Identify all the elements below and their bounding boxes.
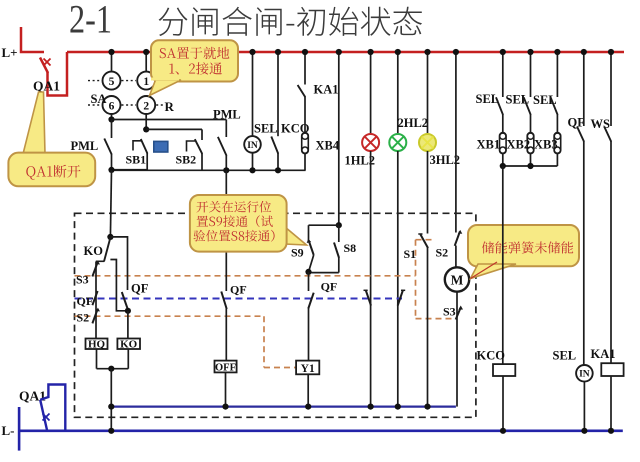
coil KCO (477, 166, 516, 431)
title text (69, 0, 112, 42)
pushbutton SB1 (126, 139, 148, 170)
wire left branch (95, 262, 97, 339)
svg-text:IN: IN (247, 141, 258, 151)
svg-text:PML: PML (71, 139, 99, 153)
wire S9S8 column (338, 52, 340, 225)
svg-text:R: R (165, 99, 175, 114)
contact S2 motor (436, 230, 463, 260)
breaker QA1 bottom (19, 385, 65, 431)
svg-text:Y1: Y1 (301, 363, 315, 375)
callout run-position (190, 195, 307, 252)
svg-text:QF: QF (321, 280, 338, 294)
contact S3 motor (443, 292, 463, 407)
linkage S2 dashed orange (75, 316, 296, 367)
callout QA1-open (8, 92, 95, 186)
svg-text:S2: S2 (436, 246, 449, 260)
node S9S8 top (336, 222, 342, 228)
selector SA contact 6 (103, 96, 121, 120)
lamp SEL IN top (244, 52, 277, 170)
contact QF left (77, 291, 98, 308)
svg-text:S8: S8 (344, 241, 357, 255)
svg-text:XB2: XB2 (507, 138, 531, 152)
contact QF lamp2 (398, 290, 406, 306)
wire control rail (108, 167, 305, 174)
relay contact KA1 (298, 52, 339, 133)
contact S2 left (77, 308, 101, 325)
switch PML1 (71, 120, 112, 171)
svg-text:2-1: 2-1 (69, 0, 112, 42)
terminal XB3 (534, 133, 561, 166)
linkage S3 dashed orange (75, 240, 454, 319)
contact S1 (404, 234, 429, 407)
node L- label (2, 423, 15, 438)
svg-text:SEL: SEL (254, 122, 278, 136)
svg-text:OFF: OFF (215, 362, 236, 373)
selector SA dashed links (88, 81, 163, 105)
svg-text:S2: S2 (77, 311, 90, 325)
svg-text:XB3: XB3 (534, 138, 558, 152)
selector SA contact 5 (103, 52, 121, 90)
wire SB1 bottom link (112, 169, 148, 171)
svg-text:KO: KO (120, 339, 138, 351)
svg-text:SB2: SB2 (176, 153, 197, 167)
pushbutton SB2 (176, 129, 203, 170)
contact S3 left (76, 261, 100, 287)
label SA (91, 92, 107, 106)
svg-text:KA1: KA1 (314, 83, 339, 97)
callout SA-local (150, 40, 239, 95)
svg-text:2: 2 (143, 101, 149, 113)
switch WS (591, 52, 612, 363)
wire S9S8 bottom link (305, 269, 338, 275)
coil KA1 (591, 347, 624, 431)
svg-text:QA1: QA1 (33, 79, 60, 94)
switch SEL1 (476, 52, 504, 133)
linkage QF dashed blue (75, 298, 403, 300)
wire horizontal to SB2 (146, 128, 202, 130)
terminal XB4 (302, 133, 340, 171)
svg-text:HQ: HQ (88, 339, 106, 351)
wire QF branch (110, 237, 127, 290)
svg-text:5: 5 (109, 76, 115, 88)
svg-text:SEL: SEL (553, 349, 577, 363)
callout spring-not-charged (468, 225, 579, 279)
svg-text:L-: L- (2, 423, 15, 438)
svg-text:S9: S9 (291, 246, 304, 260)
contact QF off-column (221, 283, 246, 310)
wire motor column (455, 52, 457, 233)
node branch split (107, 234, 113, 240)
svg-text:XB1: XB1 (477, 138, 501, 152)
svg-text:KO: KO (84, 244, 104, 258)
wire inner negative rail (108, 404, 456, 410)
node junction under SA-6 (108, 116, 114, 122)
selector SA contact 2 (137, 96, 155, 129)
lamp 3HL2 (419, 52, 460, 234)
svg-text:S1: S1 (404, 247, 417, 261)
motor M (445, 246, 469, 292)
svg-text:KA1: KA1 (591, 347, 616, 361)
wire HQ-KO join (97, 366, 129, 431)
contact QF y1-column (308, 272, 337, 309)
svg-text:L+: L+ (2, 45, 18, 60)
selector SA contact 1 (137, 52, 155, 90)
switch SEL2 (506, 52, 531, 133)
contact QF lamp1 (364, 290, 372, 306)
svg-text:PML: PML (213, 108, 241, 122)
breaker QA1 top (21, 27, 67, 96)
svg-text:WS: WS (591, 117, 611, 131)
title chinese (159, 7, 422, 36)
wire horizontal to PML2 (112, 119, 227, 121)
coil KO (117, 311, 140, 369)
switch SEL3 (533, 52, 558, 133)
wire L- rail (19, 407, 623, 451)
coil OFF (215, 309, 237, 407)
svg-text:2HL2: 2HL2 (398, 116, 429, 130)
contact KO (84, 238, 111, 262)
wire column from PML (110, 170, 111, 237)
contact QF branch (122, 282, 149, 311)
svg-text:6: 6 (109, 101, 115, 113)
wire XB join (500, 163, 558, 169)
terminal XB1 (477, 133, 507, 166)
switch KCO top (271, 52, 309, 170)
svg-text:IN: IN (579, 370, 590, 380)
wire S9S8 top link (309, 225, 339, 240)
svg-text:XB4: XB4 (316, 139, 340, 153)
switch QF right (568, 52, 586, 365)
svg-text:M: M (451, 273, 464, 288)
svg-text:QF: QF (230, 283, 247, 297)
rail junction nodes (108, 428, 614, 434)
wire bypass branch (110, 260, 128, 311)
dashed enclosure box (75, 213, 476, 417)
lamp 1HL2 (345, 52, 380, 407)
contact S8 (334, 225, 356, 272)
node junction under SA-2 (143, 126, 149, 132)
lamp 2HL2 (389, 52, 428, 407)
node QF-KO join (125, 308, 131, 314)
svg-text:QA1: QA1 (19, 389, 46, 404)
indicator blue square (154, 141, 168, 152)
svg-text:QF: QF (131, 282, 149, 296)
svg-text:SB1: SB1 (126, 153, 147, 167)
coil HQ (86, 339, 108, 369)
lamp SEL IN bottom (553, 349, 593, 431)
svg-text:S3: S3 (76, 273, 89, 287)
coil Y1 (296, 308, 319, 407)
contact S9 (291, 239, 314, 272)
bus junction nodes (108, 49, 614, 55)
svg-text:QF: QF (77, 294, 94, 308)
svg-text:SA: SA (91, 92, 107, 106)
switch PML2 (213, 108, 241, 171)
svg-text:1: 1 (143, 76, 149, 88)
terminal XB2 (507, 133, 534, 166)
label R (165, 99, 175, 114)
wire OFF column (225, 170, 227, 291)
wire L+ bus (67, 51, 624, 54)
node L+ label (2, 45, 18, 60)
svg-text:S3: S3 (443, 305, 456, 319)
svg-text:KCO: KCO (477, 349, 506, 363)
